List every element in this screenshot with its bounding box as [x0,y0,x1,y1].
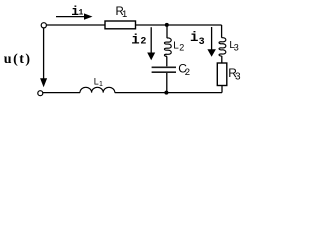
svg-text:2: 2 [185,67,190,78]
resistor R3 [217,63,227,86]
svg-text:3: 3 [234,43,239,53]
inductor L1 [80,87,115,92]
svg-text:1: 1 [122,9,127,20]
wire top-right segment [136,24,222,26]
node junction dot bottom [164,91,168,95]
wire bottom left segment [43,92,80,94]
wire bottom right segment [115,92,222,94]
wire L2 to C2 lead [166,56,168,66]
wire L3 to R3 lead [221,56,223,63]
svg-text:3: 3 [199,37,205,48]
wire top-left segment [47,24,105,26]
svg-text:1: 1 [79,9,84,18]
wire right branch top lead [221,25,223,38]
terminal top-left [41,23,46,28]
current arrow i1 [56,13,93,19]
svg-text:i: i [131,33,139,49]
svg-text:2: 2 [140,36,146,47]
resistor R1 [105,21,136,29]
capacitor C2 [152,67,176,72]
svg-text:u(t): u(t) [4,52,32,67]
inductor L3 [219,38,226,56]
svg-text:3: 3 [235,71,241,82]
wire L2 branch upper lead [166,25,168,38]
voltage arrow u(t) [40,29,47,88]
terminal bottom-left [38,91,43,96]
wire R3 bottom lead [221,86,223,93]
svg-text:i: i [190,30,198,46]
svg-text:2: 2 [179,43,184,53]
svg-text:1: 1 [99,81,103,88]
current arrow i3 [207,27,216,57]
current arrow i2 [147,27,155,60]
wire C2 lower lead [166,73,168,93]
node junction dot top [165,23,169,27]
inductor L2 [164,38,171,56]
